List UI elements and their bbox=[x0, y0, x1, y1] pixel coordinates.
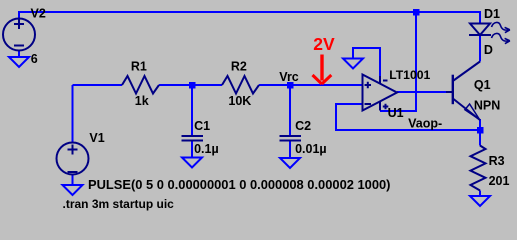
svg-text:Vaop-: Vaop- bbox=[408, 116, 442, 130]
svg-text:R3: R3 bbox=[489, 154, 505, 168]
svg-text:6: 6 bbox=[31, 52, 38, 66]
svg-text:2V: 2V bbox=[313, 34, 335, 54]
svg-text:201: 201 bbox=[489, 174, 510, 188]
svg-text:PULSE(0 5 0 0.00000001 0 0.000: PULSE(0 5 0 0.00000001 0 0.000008 0.0000… bbox=[88, 177, 390, 192]
svg-text:R1: R1 bbox=[131, 59, 147, 73]
svg-text:10K: 10K bbox=[228, 94, 251, 108]
svg-text:V1: V1 bbox=[89, 131, 104, 145]
svg-text:.tran 3m startup uic: .tran 3m startup uic bbox=[63, 197, 175, 211]
svg-text:D1: D1 bbox=[484, 7, 500, 21]
svg-text:1k: 1k bbox=[135, 94, 149, 108]
svg-text:Q1: Q1 bbox=[474, 78, 491, 92]
svg-text:LT1001: LT1001 bbox=[389, 68, 430, 82]
svg-text:R2: R2 bbox=[231, 59, 247, 73]
svg-text:NPN: NPN bbox=[474, 98, 500, 112]
svg-text:0.1µ: 0.1µ bbox=[194, 142, 219, 156]
svg-text:C2: C2 bbox=[295, 119, 311, 133]
svg-text:0.01µ: 0.01µ bbox=[295, 142, 327, 156]
svg-text:U1: U1 bbox=[388, 106, 404, 120]
svg-text:D: D bbox=[484, 43, 493, 57]
svg-text:Vrc: Vrc bbox=[279, 70, 299, 84]
svg-text:V2: V2 bbox=[31, 7, 46, 21]
svg-text:C1: C1 bbox=[194, 119, 210, 133]
